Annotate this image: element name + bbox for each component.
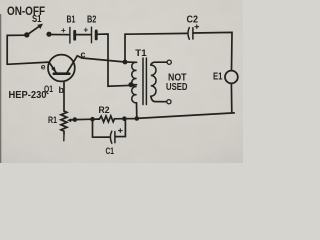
wire: B1 to B2 [75, 34, 91, 36]
wire: node A up and C2 top run [125, 33, 187, 62]
earphone E1 [225, 71, 238, 84]
transformer T1 secondary [151, 62, 167, 101]
svg-text:E1: E1 [213, 72, 223, 83]
transformer T1 primary [125, 62, 137, 119]
svg-text:e: e [41, 62, 46, 72]
svg-text:+: + [84, 26, 89, 35]
svg-text:B1: B1 [67, 15, 76, 26]
resistor R2 [98, 116, 114, 122]
switch S1 [24, 24, 52, 38]
transformer core [143, 58, 146, 105]
svg-text:+: + [61, 26, 66, 35]
R1 wiper arrow [67, 117, 77, 122]
svg-text:HEP-230: HEP-230 [9, 90, 47, 101]
junction dot coil-bottom [135, 116, 140, 121]
wire: collector run to node A [77, 56, 125, 62]
svg-text:S1: S1 [32, 14, 42, 25]
capacitor C1 branch [93, 119, 126, 144]
node A junction dot [123, 60, 128, 65]
wire: switch to B1 [49, 34, 69, 36]
junction dot C1-right [122, 116, 127, 121]
svg-text:C1: C1 [106, 146, 115, 157]
wire: rail to R2 [115, 118, 125, 120]
paper background [0, 0, 243, 163]
battery B2 [92, 27, 97, 43]
wire: R2 to C1-left dot [93, 118, 99, 120]
secondary terminal bottom (open) [167, 100, 171, 104]
wire: top wire segment to switch [7, 34, 27, 36]
wire: C2 to right corner down to E1 [193, 32, 232, 70]
svg-text:C2: C2 [187, 15, 199, 26]
wire: rail continues [125, 118, 137, 120]
primary tap dot [128, 82, 133, 87]
svg-text:T1: T1 [135, 48, 147, 59]
svg-text:b: b [59, 85, 65, 95]
wire: emitter from left rail [7, 62, 49, 64]
junction dot C1-left [90, 117, 95, 122]
svg-text:c: c [81, 50, 86, 60]
capacitor C2 [188, 25, 199, 39]
wire: left rail [6, 35, 8, 64]
transistor Q1 [48, 55, 77, 82]
battery B1 [70, 28, 75, 44]
wire: to wiper dot [75, 118, 93, 120]
wire: E1 down to bottom right corner and bottom rail [137, 83, 234, 118]
svg-text:R1: R1 [48, 115, 58, 126]
potentiometer R1 [61, 83, 67, 141]
scan edge line left [0, 14, 1, 163]
secondary terminal top (open) [167, 60, 171, 64]
wire: B2 to corner, down, to tap [96, 34, 129, 86]
svg-text:R2: R2 [99, 105, 110, 116]
svg-text:USED: USED [166, 82, 188, 93]
svg-text:B2: B2 [87, 14, 97, 25]
